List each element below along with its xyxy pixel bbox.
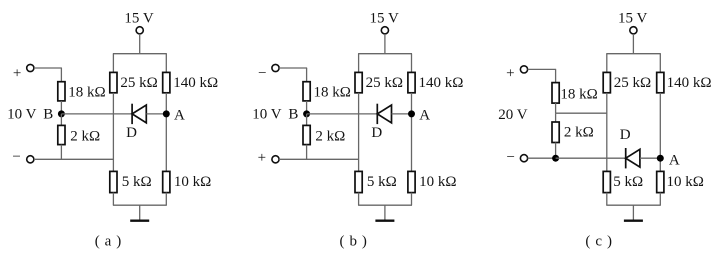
- resistor 25k (a): [110, 72, 117, 92]
- wire: 18k to junction (c): [555, 103, 557, 113]
- svg-text:−: −: [258, 66, 266, 82]
- wire: top input (c): [528, 68, 557, 70]
- svg-text:10 V: 10 V: [7, 107, 36, 123]
- svg-text:10 kΩ: 10 kΩ: [667, 174, 704, 190]
- terminal input bottom (a): [27, 156, 34, 163]
- svg-text:( c ): ( c ): [585, 234, 612, 250]
- ground (c): [624, 205, 643, 221]
- svg-text:25 kΩ: 25 kΩ: [614, 75, 651, 91]
- svg-text:18 kΩ: 18 kΩ: [314, 85, 351, 101]
- resistor 10k (b): [408, 171, 415, 192]
- svg-text:−: −: [12, 149, 20, 165]
- wire: right rail lower (b): [411, 193, 413, 206]
- node A (a): [163, 110, 170, 117]
- resistor 10k (a): [163, 171, 170, 192]
- svg-text:140 kΩ: 140 kΩ: [667, 75, 712, 91]
- svg-text:15 V: 15 V: [124, 11, 153, 27]
- wire: right rail mid (c): [659, 93, 661, 172]
- wire: diode to node A (c): [640, 157, 660, 159]
- resistor 18k (c): [552, 83, 559, 104]
- svg-text:10 kΩ: 10 kΩ: [174, 174, 211, 190]
- wire: junction to 2k (c): [555, 113, 557, 122]
- wire: input to 18k (c): [555, 69, 557, 82]
- wire: divider junction to left rail (c): [556, 112, 607, 114]
- wire: top rail (a): [113, 53, 167, 55]
- svg-text:A: A: [419, 107, 430, 123]
- wire: bottom rail (b): [358, 204, 412, 206]
- wire: right rail upper (b): [411, 54, 413, 73]
- terminal 15V (b): [381, 27, 388, 34]
- resistor 140k (a): [163, 72, 170, 92]
- svg-text:5 kΩ: 5 kΩ: [367, 174, 397, 190]
- wire: right rail lower (a): [165, 193, 167, 206]
- svg-text:2 kΩ: 2 kΩ: [70, 128, 100, 144]
- resistor 25k (c): [603, 72, 610, 92]
- wire: 2k to bottom input (b): [306, 145, 308, 160]
- svg-text:25 kΩ: 25 kΩ: [120, 75, 157, 91]
- wire: top rail (b): [358, 53, 412, 55]
- resistor 140k (b): [408, 72, 415, 92]
- wire: left rail mid (a): [112, 93, 114, 172]
- svg-text:D: D: [371, 125, 382, 141]
- wire: left rail upper (a): [112, 54, 114, 73]
- wire: 18k to node B (a): [60, 101, 62, 114]
- wire: left rail mid (b): [358, 93, 360, 172]
- wire: bottom input to left rail (b): [279, 158, 359, 160]
- diode D (b): [377, 104, 391, 124]
- wire: bottom input (c): [528, 157, 556, 159]
- wire: node B to 2k (b): [306, 114, 308, 126]
- wire: 2k to bottom node (c): [555, 143, 557, 159]
- ground (b): [375, 205, 394, 221]
- resistor 18k (a): [58, 82, 65, 101]
- wire: right rail mid (a): [165, 93, 167, 172]
- svg-text:5 kΩ: 5 kΩ: [122, 174, 152, 190]
- resistor 25k (b): [355, 72, 362, 92]
- wire: left rail lower (b): [358, 193, 360, 206]
- wire: input to 18k (a): [60, 68, 62, 82]
- resistor 10k (c): [657, 171, 664, 192]
- wire: bottom node to diode (c): [556, 157, 626, 159]
- resistor 5k (c): [603, 171, 610, 192]
- svg-text:+: +: [13, 66, 21, 82]
- ground (a): [130, 205, 149, 221]
- wire: right rail lower (c): [659, 193, 661, 206]
- wire: node B to diode (a): [61, 113, 132, 115]
- wire: left rail lower (c): [606, 193, 608, 206]
- terminal 15V (a): [136, 27, 143, 34]
- resistor 140k (c): [657, 72, 664, 92]
- wire: 15V feed (a): [139, 34, 141, 54]
- wire: top input (a): [34, 67, 62, 69]
- svg-text:10 V: 10 V: [252, 107, 281, 123]
- terminal input top (b): [272, 64, 279, 71]
- svg-text:5 kΩ: 5 kΩ: [613, 174, 643, 190]
- terminal input top (c): [520, 66, 527, 73]
- svg-text:140 kΩ: 140 kΩ: [173, 75, 218, 91]
- wire: left rail mid (c): [606, 93, 608, 172]
- wire: left rail upper (b): [358, 54, 360, 73]
- svg-text:20 V: 20 V: [498, 107, 527, 123]
- wire: top rail (c): [606, 53, 661, 55]
- wire: diode to node A (a): [146, 113, 166, 115]
- wire: 2k to bottom input (a): [60, 145, 62, 160]
- resistor 2k (c): [552, 122, 559, 143]
- svg-text:15 V: 15 V: [370, 11, 399, 27]
- svg-text:D: D: [126, 125, 137, 141]
- svg-text:140 kΩ: 140 kΩ: [419, 75, 464, 91]
- wire: bottom rail (c): [606, 204, 661, 206]
- wire: top input (b): [279, 67, 307, 69]
- wire: right rail upper (c): [659, 54, 661, 73]
- node divider bottom (c): [552, 155, 559, 162]
- terminal input bottom (b): [272, 156, 279, 163]
- wire: right rail upper (a): [165, 54, 167, 73]
- svg-text:B: B: [288, 107, 298, 123]
- svg-text:18 kΩ: 18 kΩ: [68, 85, 105, 101]
- svg-text:B: B: [43, 107, 53, 123]
- svg-text:18 kΩ: 18 kΩ: [560, 87, 597, 103]
- resistor 5k (a): [110, 171, 117, 192]
- diode D (c): [626, 148, 640, 168]
- wire: left rail upper (c): [606, 54, 608, 73]
- resistor 5k (b): [355, 171, 362, 192]
- wire: input to 18k (b): [306, 68, 308, 82]
- wire: bottom input to left rail (a): [34, 158, 114, 160]
- svg-text:25 kΩ: 25 kΩ: [366, 75, 403, 91]
- resistor 2k (b): [303, 125, 310, 144]
- svg-text:15 V: 15 V: [618, 11, 647, 27]
- resistor 18k (b): [303, 82, 310, 101]
- node A (c): [657, 155, 664, 162]
- terminal input bottom (c): [520, 155, 527, 162]
- wire: right rail mid (b): [411, 93, 413, 172]
- svg-text:D: D: [620, 127, 631, 143]
- wire: bottom rail (a): [113, 204, 167, 206]
- wire: 15V feed (c): [632, 34, 634, 54]
- svg-text:( a ): ( a ): [95, 234, 122, 250]
- node A (b): [408, 110, 415, 117]
- svg-text:+: +: [258, 150, 266, 166]
- wire: 18k to node B (b): [306, 101, 308, 114]
- wire: node B to diode (b): [307, 113, 378, 115]
- terminal 15V (c): [630, 27, 637, 34]
- node B (b): [303, 110, 310, 117]
- wire: diode to node A (b): [392, 113, 412, 115]
- svg-text:A: A: [669, 152, 680, 168]
- svg-text:10 kΩ: 10 kΩ: [419, 174, 456, 190]
- svg-text:( b ): ( b ): [340, 234, 368, 250]
- resistor 2k (a): [58, 125, 65, 144]
- wire: left rail lower (a): [112, 193, 114, 206]
- wire: node B to 2k (a): [60, 114, 62, 126]
- svg-text:2 kΩ: 2 kΩ: [564, 125, 594, 141]
- terminal input top (a): [27, 64, 34, 71]
- svg-text:A: A: [174, 107, 185, 123]
- wire: 15V feed (b): [384, 34, 386, 54]
- svg-text:−: −: [506, 149, 514, 165]
- svg-text:2 kΩ: 2 kΩ: [315, 128, 345, 144]
- node B (a): [58, 110, 65, 117]
- diode D (a): [132, 104, 146, 124]
- svg-text:+: +: [506, 66, 514, 82]
